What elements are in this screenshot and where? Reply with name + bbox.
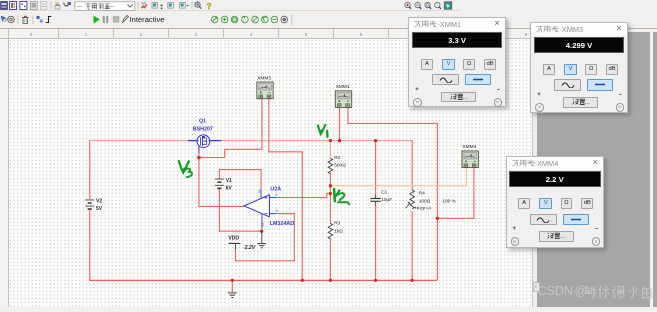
svg-text:3: 3 <box>258 190 260 194</box>
svg-text:XMM1: XMM1 <box>336 84 350 90</box>
wire op-amp minus input to VDD reference <box>236 214 295 261</box>
toolbar row1 icons <box>1 1 212 11</box>
wire V1 plus to op-amp VCC pin <box>219 170 261 189</box>
annotation node V1 (green handwriting) <box>318 125 328 137</box>
watermark <box>537 283 657 300</box>
resistor R3 1kohm <box>328 223 332 239</box>
wire R4 top drop <box>411 140 413 190</box>
wire op-amp pin11 stub <box>261 228 263 231</box>
wire XMM1 minus lead over to right drop <box>348 108 438 281</box>
red check icon <box>142 3 146 5</box>
instrument window multimeter XMM3 <box>530 22 628 114</box>
wire ground stem <box>231 280 233 292</box>
wire top net V1 right segment <box>221 140 412 142</box>
label/wire icons <box>56 3 60 5</box>
battery V2 5V <box>85 200 94 209</box>
capacitor C1 10uF <box>371 195 381 206</box>
svg-text:XMM3: XMM3 <box>257 75 271 81</box>
svg-text:BSH207: BSH207 <box>193 126 213 132</box>
op-amp U1 U2A LM324AD (mirrored, pointing left) <box>244 189 276 229</box>
resistor R2 500ohm <box>328 158 332 174</box>
trash <box>23 18 28 24</box>
svg-text:R4: R4 <box>419 190 425 196</box>
svg-text:C1: C1 <box>381 189 387 195</box>
svg-text:10µF: 10µF <box>381 197 392 203</box>
svg-text:Q1: Q1 <box>199 119 206 125</box>
annotation node V3 (green handwriting) <box>179 161 192 177</box>
svg-text:Key=A: Key=A <box>417 206 431 212</box>
wire C1 top lead <box>375 141 377 196</box>
label Key=A <box>414 207 416 209</box>
svg-text:VDD: VDD <box>228 236 239 242</box>
toolbar row1 right zoom icons <box>405 2 452 9</box>
multimeter icon XMM4 <box>462 151 478 168</box>
annotation node V2 (green handwriting) <box>334 189 349 204</box>
wire bottom ground rail <box>89 279 437 281</box>
toolbar row2 icons <box>1 15 292 26</box>
svg-text:R2: R2 <box>334 155 340 161</box>
dropdown <box>75 2 135 11</box>
transistor Q1 BSH207 (PMOS in circle) <box>188 135 221 153</box>
dotted canvas <box>9 39 532 307</box>
play pause stop pen <box>94 16 100 24</box>
VDD power symbol <box>229 243 241 250</box>
potentiometer R4 wiper arrow <box>406 203 410 208</box>
multimeter icon XMM1 <box>335 91 351 108</box>
wire Q1 gate node down to op-amp output <box>199 157 244 206</box>
wire C1 bottom to ground rail <box>375 205 377 280</box>
wire XMM4 plus lead (tan) to divider node <box>330 168 466 186</box>
wire XMM3 plus lead S-bend to Q1 gate node <box>199 99 262 158</box>
svg-text:500Ω: 500Ω <box>334 163 346 169</box>
multimeter icon XMM3 <box>257 82 273 99</box>
gray outside panel <box>537 32 651 307</box>
vertical ruler <box>0 39 9 307</box>
wire R2-R3 divider node column <box>329 173 331 223</box>
svg-text:4: 4 <box>275 193 277 197</box>
svg-text:LM324AD: LM324AD <box>270 221 295 227</box>
svg-text:6V: 6V <box>226 185 233 191</box>
battery V1 6V <box>215 179 224 189</box>
wire XMM1 plus lead <box>339 108 341 141</box>
instrument window multimeter XMM1 <box>408 17 506 108</box>
potentiometer R4 100ohm <box>410 190 414 209</box>
svg-text:11: 11 <box>261 223 265 227</box>
svg-text:V2: V2 <box>96 199 102 205</box>
svg-text:100 %: 100 % <box>442 199 456 205</box>
export icons with arrows <box>152 3 189 10</box>
svg-text:1kΩ: 1kΩ <box>334 228 343 234</box>
wire R3 bottom to ground rail <box>329 238 331 280</box>
probe green icons <box>211 16 287 23</box>
wire R2 top lead <box>329 141 331 159</box>
wire V1 minus down and to op-amp Vneg pin node <box>219 189 262 231</box>
wire R4 bottom to ground rail <box>411 211 413 280</box>
magnifier <box>195 2 200 7</box>
wire left rail from V2 to ground rail <box>89 210 91 281</box>
svg-text:V1: V1 <box>226 178 232 184</box>
horizontal ruler <box>9 29 533 40</box>
ground at op-amp pin 11 <box>257 231 266 248</box>
ground at bottom rail <box>228 293 237 298</box>
svg-text:XMM4: XMM4 <box>462 144 476 150</box>
svg-text:2.2V: 2.2V <box>244 245 256 251</box>
svg-text:2: 2 <box>276 209 278 213</box>
svg-text:U2A: U2A <box>270 186 281 192</box>
right scrollbar strip <box>532 29 538 308</box>
wire left rail from top net to V2 <box>89 141 91 199</box>
svg-text:R3: R3 <box>334 221 340 227</box>
horizontal ruler ticks and numbers <box>30 32 528 37</box>
svg-text:100Ω: 100Ω <box>419 199 431 205</box>
svg-text:5V: 5V <box>96 206 103 212</box>
wire op-amp plus input to divider node <box>276 194 331 198</box>
junction node dots <box>197 139 439 282</box>
left ruler ticks <box>2 49 8 297</box>
wire top net V1 left segment <box>89 140 188 142</box>
ruler corner <box>0 29 9 40</box>
Q1 gate red stub <box>198 153 200 156</box>
instrument window multimeter XMM4 <box>506 156 605 248</box>
wire XMM4 minus lead to right drop <box>437 168 474 218</box>
small E box on scrollbar <box>533 282 540 292</box>
wire XMM3 minus lead to ground rail <box>269 99 303 280</box>
